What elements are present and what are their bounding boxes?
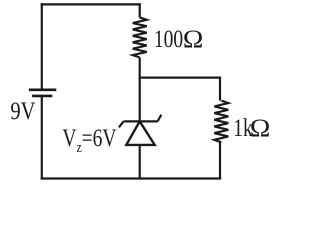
svg-text:100: 100 (154, 25, 183, 53)
wire middle vertical top segment (top rail to resistor R1) (139, 3, 141, 17)
wire zener anode to bottom rail (139, 145, 141, 180)
node junction horizontal wire to right branch (139, 76, 222, 78)
svg-text:9V: 9V (10, 97, 35, 124)
resistor R2 1k ohm zigzag (214, 101, 228, 143)
svg-text:Ω: Ω (250, 114, 270, 142)
zener diode D1 cathode bar (124, 120, 158, 122)
wire right vertical lower (resistor R2 to bottom rail) (219, 142, 221, 179)
wire left vertical upper (battery + up to top) (41, 3, 43, 90)
battery B1 9V bottom plate (short) (32, 95, 52, 98)
resistor R1 100 ohm zigzag (133, 17, 147, 57)
wire right vertical upper (junction to resistor R2) (219, 77, 221, 101)
battery B1 9V top plate (long) (29, 89, 56, 92)
wire bottom rail (41, 177, 221, 179)
zener diode D1 anode triangle (126, 121, 154, 144)
wire top horizontal (battery + to 100 ohm resistor) (41, 3, 141, 5)
svg-text:Ω: Ω (183, 25, 203, 53)
zener diode D1 left bent tick (119, 121, 124, 127)
svg-text:Vz=6V: Vz=6V (62, 124, 116, 156)
wire left vertical lower (battery - down to bottom rail) (41, 96, 43, 180)
zener diode D1 right bent tick (158, 115, 162, 122)
wire middle vertical (resistor R1 to zener cathode) (139, 58, 141, 122)
